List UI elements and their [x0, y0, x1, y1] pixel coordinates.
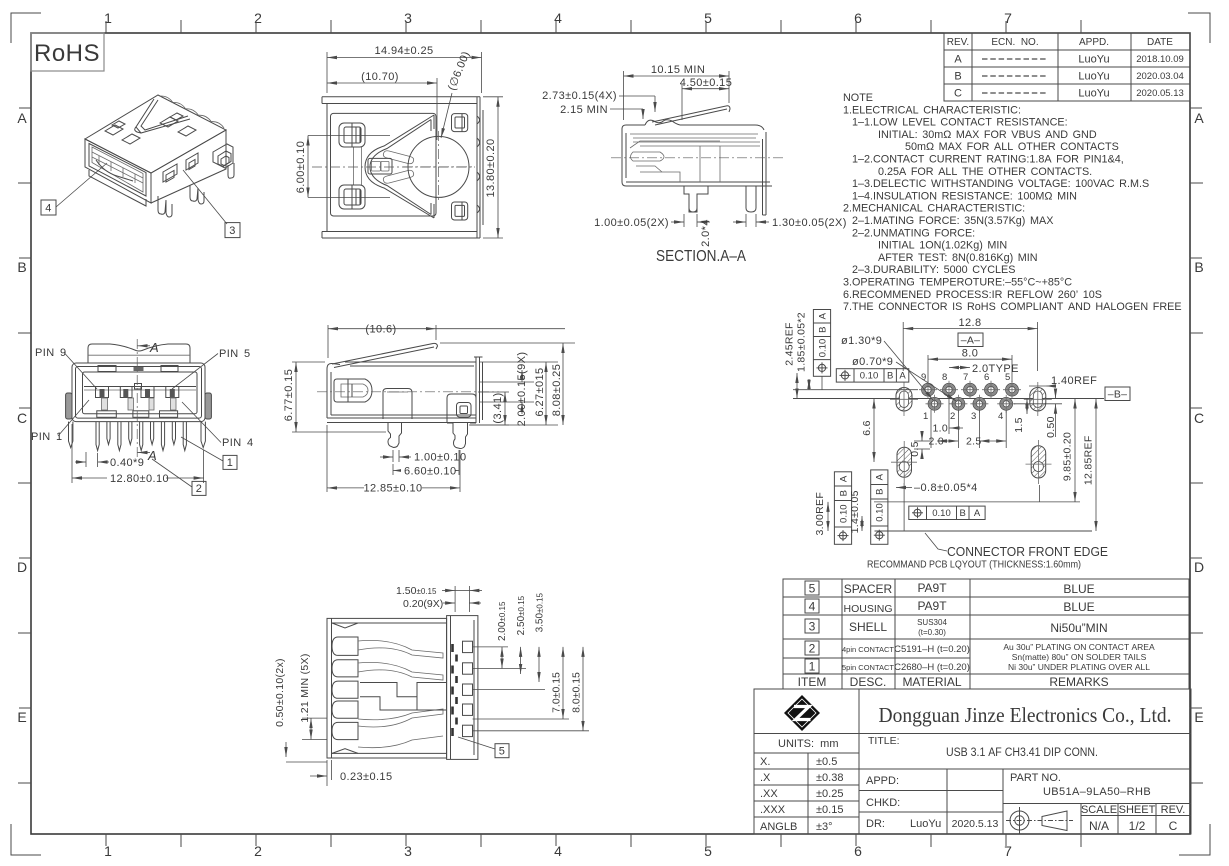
shell rear vertical tab: [763, 132, 767, 215]
svg-text:C: C: [1169, 819, 1178, 833]
back view tongue wedge: [365, 115, 434, 218]
dim 0.50: [1014, 390, 1062, 437]
svg-text:1.00±0.05(2X): 1.00±0.05(2X): [594, 217, 669, 229]
dim (10.6): [328, 325, 565, 358]
svg-text:0.25A FOR ALL THE OTHER CONTAC: 0.25A FOR ALL THE OTHER CONTACTS.: [878, 166, 1092, 178]
side middle leg: [388, 423, 402, 448]
svg-text:±0.38: ±0.38: [816, 772, 843, 784]
svg-text:1.5: 1.5: [1013, 417, 1025, 433]
revision table: [944, 33, 1190, 101]
dim 6.6: [873, 399, 875, 463]
side view shell: [327, 362, 476, 423]
svg-text:B: B: [875, 489, 886, 495]
bottom pin numbers: [923, 411, 1003, 422]
side ears: [66, 393, 72, 419]
iso front opening: [89, 144, 146, 197]
svg-text:ANGLB: ANGLB: [760, 821, 797, 833]
svg-text:ø0.70*9: ø0.70*9: [852, 356, 893, 368]
svg-text:SHEET: SHEET: [1119, 804, 1156, 816]
svg-text:NOTE: NOTE: [843, 92, 873, 104]
circle crosshair: [403, 166, 474, 168]
svg-text:0.50±0.10(2x): 0.50±0.10(2x): [274, 658, 286, 727]
section leg 1: [684, 186, 708, 212]
side centerline: [317, 391, 499, 393]
dim 13.80±0.20: [483, 97, 503, 238]
svg-text:Ni50u”MIN: Ni50u”MIN: [1050, 621, 1107, 635]
title block: [754, 689, 1191, 834]
svg-text:2.50±0.15: 2.50±0.15: [516, 595, 527, 635]
svg-text:12.85±0.10: 12.85±0.10: [364, 483, 423, 495]
svg-text:2.0: 2.0: [929, 436, 945, 448]
svg-text:A: A: [954, 54, 962, 66]
tongue finger slots: [383, 151, 413, 164]
svg-text:LuoYu: LuoYu: [1078, 54, 1109, 66]
svg-text:SHELL: SHELL: [849, 620, 887, 634]
svg-text:1: 1: [104, 10, 112, 26]
svg-text:SPACER: SPACER: [844, 582, 893, 596]
svg-text:CONNECTOR FRONT EDGE: CONNECTOR FRONT EDGE: [947, 544, 1108, 559]
note text block: [843, 92, 1182, 313]
svg-text:(10.6): (10.6): [365, 324, 396, 336]
spacer (right): [447, 616, 478, 760]
svg-text:0.10: 0.10: [875, 503, 886, 522]
svg-text:1.50±0.15: 1.50±0.15: [396, 585, 437, 597]
svg-text:ITEM: ITEM: [798, 675, 827, 689]
svg-text:1.4±0.05: 1.4±0.05: [849, 490, 861, 533]
projection symbol: [1006, 807, 1073, 834]
row center ticks: [19, 108, 1202, 708]
appd/chkd/dr: [866, 775, 999, 830]
svg-text:12.80±0.10: 12.80±0.10: [110, 473, 169, 485]
row labels left: [17, 110, 27, 725]
svg-text:12.85REF: 12.85REF: [1083, 435, 1095, 485]
dim 14.94±0.25: [327, 52, 482, 93]
9 pins: [96, 422, 186, 451]
svg-text:B: B: [838, 490, 849, 496]
svg-text:TITLE:: TITLE:: [868, 735, 900, 747]
corner mark bottom-right: [1179, 824, 1210, 855]
svg-text:2: 2: [809, 642, 816, 656]
svg-text:6.RECOMMENED PROCESS:IR REFLOW: 6.RECOMMENED PROCESS:IR REFLOW 260’ 10S: [843, 289, 1102, 301]
svg-text:1.30±0.05(2X): 1.30±0.05(2X): [772, 217, 847, 229]
svg-text:2–1.MATING FORCE: 35N(3.57Kg): 2–1.MATING FORCE: 35N(3.57Kg) MAX: [852, 215, 1053, 227]
dim 6.60±0.10: [393, 450, 459, 475]
svg-text:UB51A–9LA50–RHB: UB51A–9LA50–RHB: [1043, 786, 1151, 798]
revision dashes: [982, 59, 1048, 93]
dim 0.23±0.15: [310, 760, 332, 786]
svg-text:6.77±0.15: 6.77±0.15: [283, 369, 295, 421]
svg-text:6.27±015: 6.27±015: [534, 368, 546, 417]
svg-text:8.0±0.15: 8.0±0.15: [571, 672, 583, 713]
iso right face: [151, 130, 226, 203]
dim 1.40REF: [1029, 385, 1050, 387]
svg-text:5: 5: [704, 10, 712, 26]
iso spacer visible under front: [89, 170, 146, 206]
svg-text:3: 3: [404, 10, 412, 26]
svg-text:A: A: [17, 110, 27, 126]
svg-text:PIN 1: PIN 1: [31, 431, 63, 443]
5 slots: [332, 637, 358, 740]
row ticks right: [1190, 183, 1203, 783]
svg-text:2020.05.13: 2020.05.13: [1136, 88, 1184, 99]
svg-text:2020.5.13: 2020.5.13: [952, 818, 999, 830]
svg-text:6.6: 6.6: [861, 420, 873, 436]
column ticks bottom: [181, 834, 1081, 847]
svg-text:PIN 4: PIN 4: [222, 437, 254, 449]
side middle block: [383, 389, 412, 420]
back view shell outline: [322, 97, 483, 238]
company logo: [784, 695, 820, 731]
svg-text:3.OPERATING TEMPEROTURE:–55°C~: 3.OPERATING TEMPEROTURE:–55°C~+85°C: [843, 277, 1072, 289]
svg-text:1–3.DELECTIC WITHSTANDING VOLT: 1–3.DELECTIC WITHSTANDING VOLTAGE: 100VA…: [852, 178, 1149, 190]
dim 1.50±0.15: [442, 586, 482, 612]
svg-text:D: D: [1194, 559, 1204, 575]
dim 1.00±0.05(2X): [671, 214, 710, 227]
svg-text:3.50±0.15: 3.50±0.15: [534, 592, 545, 632]
svg-text:BLUE: BLUE: [1063, 600, 1094, 614]
svg-text:RoHS: RoHS: [34, 40, 100, 67]
side latch spring detail: [334, 379, 372, 402]
dim 1.00±0.10: [380, 450, 412, 462]
svg-text:3: 3: [229, 225, 236, 237]
dim 0.40*9: [75, 452, 109, 467]
svg-text:A: A: [817, 312, 828, 319]
svg-text:2.MECHANICAL CHARACTERISTIC:: 2.MECHANICAL CHARACTERISTIC:: [843, 203, 1025, 215]
centerline vertical: [136, 339, 138, 458]
svg-text:INITIAL: 30mΩ MAX FOR VBUS AND: INITIAL: 30mΩ MAX FOR VBUS AND GND: [878, 129, 1097, 141]
side right leg: [453, 423, 468, 449]
front view (pins): [31, 339, 254, 495]
datum B flag: [1105, 387, 1130, 401]
dim 2.0TYPE: [949, 367, 970, 369]
svg-text:5pin CONTACT: 5pin CONTACT: [842, 663, 894, 672]
svg-text:8.0: 8.0: [962, 348, 979, 360]
svg-text:DATE: DATE: [1147, 37, 1173, 48]
dim 2.15 MIN: [610, 109, 643, 119]
svg-text:C: C: [1194, 410, 1204, 426]
svg-text:APPD:: APPD:: [866, 775, 899, 787]
iso right rear tab: [213, 144, 233, 168]
svg-text:1.21 MIN (5X): 1.21 MIN (5X): [299, 653, 311, 722]
svg-text:BLUE: BLUE: [1063, 582, 1094, 596]
svg-text:1: 1: [809, 660, 816, 674]
contact body bars: [102, 398, 177, 410]
svg-text:PA9T: PA9T: [917, 599, 947, 613]
svg-text:2: 2: [950, 411, 955, 422]
svg-text:0.10: 0.10: [817, 339, 828, 358]
dim 1.0 2.0 2.5: [931, 396, 1006, 448]
svg-text:8.08±0.25: 8.08±0.25: [551, 364, 563, 416]
svg-text:6.60±0.10: 6.60±0.10: [404, 466, 456, 478]
gdt box horizontal bottom: [909, 506, 985, 519]
dim 0.5: [914, 432, 930, 458]
svg-text:.XX: .XX: [760, 788, 778, 800]
dim 8.08±0.25: [440, 343, 575, 425]
svg-text:0.10: 0.10: [838, 504, 849, 523]
svg-text:B: B: [817, 327, 828, 333]
svg-text:±0.5: ±0.5: [816, 756, 837, 768]
svg-text:1.40REF: 1.40REF: [1051, 375, 1097, 387]
back view inner opening: [331, 113, 437, 216]
svg-text:(t=0.30): (t=0.30): [918, 628, 946, 637]
svg-text:DR:: DR:: [866, 818, 885, 830]
svg-text:2018.10.09: 2018.10.09: [1136, 54, 1184, 65]
svg-text:Au 30u” PLATING ON CONTACT ARE: Au 30u” PLATING ON CONTACT AREA: [1003, 642, 1155, 652]
dim 0.20(9X): [443, 602, 481, 604]
svg-text:4: 4: [554, 10, 562, 26]
svg-text:HOUSING: HOUSING: [843, 603, 892, 615]
dim (3.41): [469, 392, 509, 425]
svg-text:PA9T: PA9T: [917, 581, 947, 595]
section interior lines: [630, 134, 760, 182]
leader box 2: [192, 481, 206, 495]
column center ticks: [106, 21, 1006, 846]
svg-text:1/2: 1/2: [1129, 819, 1146, 833]
svg-text:7.0±0.15: 7.0±0.15: [551, 672, 563, 713]
datum A flag: [958, 333, 983, 347]
svg-text:DESC.: DESC.: [850, 675, 887, 689]
iso top face: [85, 95, 226, 173]
dim 9.85±0.20: [1074, 399, 1076, 502]
svg-text:10.15 MIN: 10.15 MIN: [651, 64, 705, 76]
dim 2.45REF 1.85: [797, 373, 809, 399]
svg-text:5: 5: [704, 843, 712, 859]
oval drop lines: [904, 483, 1040, 531]
svg-text:A: A: [147, 448, 157, 463]
svg-text:Ni 30u” UNDER PLATING OVER ALL: Ni 30u” UNDER PLATING OVER ALL: [1008, 662, 1150, 672]
pin cross marks: [453, 644, 457, 736]
column labels top: [104, 10, 1012, 26]
front shell outer: [72, 363, 205, 422]
dim 4.50±0.15: [682, 84, 729, 120]
gdt box vertical bottom-left1: [834, 472, 851, 545]
svg-text:A: A: [149, 340, 159, 355]
right edge bumps: [477, 116, 480, 213]
center stepped line: [360, 683, 447, 711]
svg-text:5: 5: [809, 582, 816, 596]
dim 3.00REF: [827, 502, 829, 531]
svg-text:CHKD:: CHKD:: [866, 797, 900, 809]
svg-text:PIN 5: PIN 5: [219, 348, 251, 360]
svg-text:0.50: 0.50: [1045, 416, 1057, 438]
tongue center contact: [368, 158, 392, 174]
small square bottom right: [452, 202, 468, 220]
iso tongue inside: [92, 152, 143, 183]
svg-text:.XXX: .XXX: [760, 804, 786, 816]
latch arm: [652, 106, 730, 125]
svg-text:.X: .X: [760, 772, 771, 784]
dim 10.15 MIN: [624, 71, 730, 120]
front opening: [83, 372, 198, 414]
svg-text:0.20(9X): 0.20(9X): [403, 598, 443, 610]
svg-text:RECOMMAND PCB LQYOUT (THICKNES: RECOMMAND PCB LQYOUT (THICKNESS:1.60mm): [867, 559, 1081, 571]
oval slot bottom left: [891, 441, 917, 483]
iso top V cutout: [135, 99, 190, 133]
RoHS box: [31, 33, 104, 71]
svg-text:1.85±0.05*2: 1.85±0.05*2: [796, 312, 808, 372]
svg-text:–B–: –B–: [1108, 389, 1128, 401]
svg-text:APPD.: APPD.: [1079, 37, 1109, 48]
centerline horizontal: [312, 166, 475, 168]
svg-text:2.0*4: 2.0*4: [700, 219, 712, 247]
svg-text:ECN. NO.: ECN. NO.: [991, 37, 1038, 48]
iso right face holes: [163, 153, 198, 182]
svg-text:2.00±0.15(9X): 2.00±0.15(9X): [516, 352, 528, 427]
svg-text:B: B: [954, 71, 961, 83]
iso legs: [158, 163, 234, 217]
svg-text:B: B: [1194, 259, 1203, 275]
leader box 3: [225, 223, 240, 238]
section shell outline: [622, 125, 772, 186]
section arrow bottom: [138, 452, 151, 454]
svg-text:6: 6: [854, 10, 862, 26]
side right flange: [474, 357, 483, 423]
parts table item boxes: [805, 581, 819, 673]
gdt box horizontal left: [836, 369, 909, 382]
units + tolerance table text: [760, 738, 843, 833]
row labels right: [1194, 110, 1204, 725]
dim 12.8: [903, 322, 1037, 371]
svg-text:X.: X.: [760, 756, 770, 768]
svg-text:–A–: –A–: [961, 335, 981, 347]
dim 0.8±0.05*4: [896, 487, 912, 489]
contact pins in windows: [100, 389, 175, 398]
svg-text:SECTION.A–A: SECTION.A–A: [656, 248, 747, 265]
svg-text:MATERIAL: MATERIAL: [902, 675, 961, 689]
connector front edge label: [925, 533, 947, 551]
latch connecting strip: [354, 147, 362, 185]
svg-text:B: B: [960, 508, 966, 519]
svg-text:0.10: 0.10: [932, 508, 951, 519]
svg-text:0.10: 0.10: [860, 371, 879, 382]
svg-text:C5191–H (t=0.20): C5191–H (t=0.20): [894, 644, 970, 655]
top pin holes 9 8 7 6 5: [922, 383, 1019, 396]
leader box 1: [223, 455, 237, 469]
corner mark top-right: [1188, 13, 1210, 43]
shell bottom band windows: [97, 411, 178, 418]
svg-text:3.00REF: 3.00REF: [814, 492, 826, 536]
svg-text:8: 8: [942, 372, 947, 383]
iso back edge bumps: [160, 96, 224, 128]
svg-text:±3°: ±3°: [816, 821, 833, 833]
dim (ø6.00) leader: [441, 93, 452, 138]
dim 6.00±0.10: [308, 136, 390, 198]
leader box 4: [41, 200, 56, 215]
svg-text:2.15 MIN: 2.15 MIN: [560, 104, 608, 116]
dim 2.00±0.15(9X): [480, 370, 534, 414]
section leg 2: [746, 186, 756, 212]
section centerline: [611, 157, 784, 159]
svg-text:(3.41): (3.41): [492, 392, 504, 423]
dim 8.0: [928, 355, 1012, 382]
svg-text:2–2.UNMATING FORCE:: 2–2.UNMATING FORCE:: [852, 227, 975, 239]
svg-text:C: C: [17, 410, 27, 426]
svg-text:(10.70): (10.70): [361, 71, 399, 83]
svg-text:0.5: 0.5: [909, 441, 921, 457]
dims left rotated: [286, 718, 327, 762]
svg-text:2–3.DURABILITY: 5000 CYCLES: 2–3.DURABILITY: 5000 CYCLES: [852, 264, 1015, 276]
svg-text:2.73±0.15(4X): 2.73±0.15(4X): [542, 90, 617, 102]
svg-text:4: 4: [45, 203, 52, 215]
svg-text:7: 7: [1004, 843, 1012, 859]
svg-text:1.0: 1.0: [933, 423, 949, 435]
svg-text:3: 3: [404, 843, 412, 859]
latch upper left: [339, 123, 365, 147]
row ticks left: [18, 183, 31, 783]
spring contacts wavy: [358, 640, 443, 747]
dim 1.30±0.05(2X): [733, 214, 769, 227]
svg-text:LuoYu: LuoYu: [1078, 88, 1109, 100]
svg-text:LuoYu: LuoYu: [910, 818, 941, 830]
bottom pin holes 1 2 3 4: [928, 397, 1013, 410]
latch lower left: [339, 185, 365, 209]
svg-text:0.40*9: 0.40*9: [110, 457, 144, 469]
svg-text:D: D: [17, 559, 27, 575]
svg-text:USB 3.1 AF CH3.41 DIP CONN.: USB 3.1 AF CH3.41 DIP CONN.: [946, 747, 1098, 759]
svg-text:B: B: [887, 371, 893, 382]
svg-text:INITIAL 1ON(1.02Kg) MIN: INITIAL 1ON(1.02Kg) MIN: [878, 240, 1007, 252]
svg-text:12.8: 12.8: [958, 317, 981, 329]
svg-text:7: 7: [963, 372, 968, 383]
iso front face: [85, 139, 151, 203]
svg-text:C: C: [954, 88, 962, 100]
svg-text:ø1.30*9: ø1.30*9: [841, 335, 882, 347]
svg-text:1: 1: [227, 457, 234, 469]
dim 12.85±0.10: [327, 425, 460, 492]
dim 2.73±0.15(4X): [619, 96, 655, 112]
svg-text:0.23±0.15: 0.23±0.15: [340, 771, 392, 783]
svg-text:4pin CONTACT: 4pin CONTACT: [842, 645, 894, 654]
oval slot bottom right: [1026, 440, 1052, 484]
svg-text:±0.15: ±0.15: [816, 804, 843, 816]
svg-text:Dongguan Jinze Electronics Co.: Dongguan Jinze Electronics Co., Ltd.: [879, 703, 1172, 727]
bottom view: [274, 585, 589, 786]
svg-text:REV.: REV.: [947, 37, 969, 48]
svg-text:6.00±0.10: 6.00±0.10: [295, 141, 307, 193]
svg-text:REMARKS: REMARKS: [1049, 675, 1108, 689]
leader box 5: [495, 744, 509, 758]
svg-text:PART NO.: PART NO.: [1010, 772, 1061, 784]
spacer pin pads: [463, 641, 473, 736]
pattern bottom line: [874, 501, 1080, 503]
svg-text:2020.03.04: 2020.03.04: [1136, 71, 1184, 82]
svg-text:5: 5: [499, 746, 506, 758]
side latch arm: [332, 343, 438, 367]
spacer tabs: [88, 354, 190, 356]
svg-text:2.45REF: 2.45REF: [783, 322, 795, 366]
oval slot top left: [890, 382, 918, 416]
svg-text:4: 4: [809, 600, 816, 614]
svg-text:4.50±0.15: 4.50±0.15: [680, 77, 732, 89]
svg-text:SCALE: SCALE: [1081, 804, 1117, 816]
svg-text:–0.8±0.05*4: –0.8±0.05*4: [914, 482, 978, 494]
svg-text:±0.25: ±0.25: [816, 788, 843, 800]
svg-text:3: 3: [971, 411, 976, 422]
dim 1.5: [1026, 399, 1028, 415]
svg-text:2.00±0.15: 2.00±0.15: [497, 601, 508, 641]
svg-text:9.85±0.20: 9.85±0.20: [1062, 432, 1074, 481]
datum line B: [793, 398, 1104, 400]
svg-text:LuoYu: LuoYu: [1078, 71, 1109, 83]
svg-text:2: 2: [254, 10, 262, 26]
side right block: [447, 394, 476, 423]
column ticks top: [181, 20, 1081, 33]
svg-text:13.80±0.20: 13.80±0.20: [485, 139, 497, 198]
svg-text:2: 2: [196, 483, 203, 495]
isometric view: [41, 95, 240, 238]
svg-text:1–4.INSULATION RESISTANCE: 100: 1–4.INSULATION RESISTANCE: 100MΩ MIN: [852, 190, 1077, 202]
parts table text: [798, 581, 1155, 689]
